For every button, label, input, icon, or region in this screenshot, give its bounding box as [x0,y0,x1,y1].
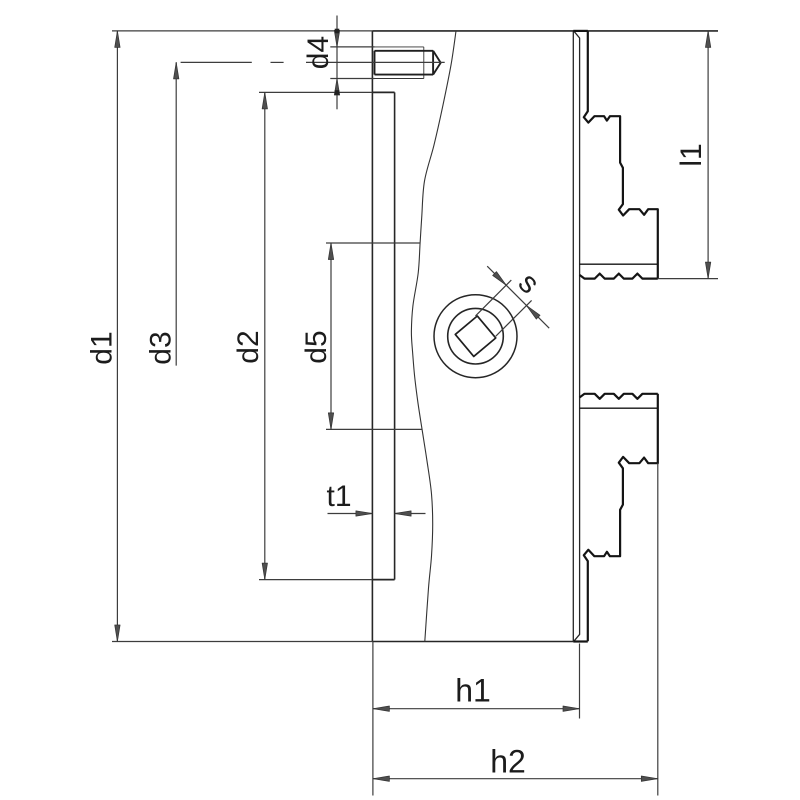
square drive [454,314,498,358]
recess bottom wall [372,579,394,581]
set screw body and cone point [375,51,441,75]
svg-text:d4: d4 [302,36,335,69]
dimension d4 [330,16,374,110]
svg-text:h2: h2 [490,743,526,779]
dimension d1 [112,31,372,642]
lower jaw (mirrored) [573,394,658,642]
jaw base line [580,263,658,265]
recess top wall [372,91,394,93]
svg-text:d1: d1 [86,331,119,364]
set screw M-thread crest lines [372,47,423,79]
svg-text:l1: l1 [675,143,708,166]
s dimension line [487,266,549,328]
upper jaw [573,31,658,279]
chuck body outline [372,31,718,642]
svg-text:d5: d5 [300,330,333,363]
wavy break line [411,31,456,642]
svg-text:t1: t1 [326,480,351,513]
dimension d3 [175,62,177,365]
serrated slide face [580,274,658,279]
dimension s extension lines [476,266,550,336]
svg-text:d2: d2 [232,330,265,363]
body front face line [572,31,574,642]
mounting recess bottom [394,92,396,579]
dimension h2 [373,463,658,795]
dimension d2 [259,92,372,579]
body back (left) face [371,31,373,642]
svg-text:d3: d3 [145,331,178,364]
jaw top edge (thick) [573,30,588,32]
dimension h1 [373,642,580,796]
svg-text:h1: h1 [455,673,491,709]
dimension l1 [658,31,718,279]
jaw top block [584,31,658,278]
screw centre line (dash-dot) [181,61,445,63]
face plate line with chamfers [574,31,580,641]
dimension d5 [326,243,422,429]
pinion socket inner circle [448,308,504,364]
dimension t1 [328,513,426,515]
body bottom edge [372,641,573,643]
pinion square socket outer circle [434,295,517,378]
crossing dots on d4 line [335,29,340,34]
body top edge [372,30,718,32]
